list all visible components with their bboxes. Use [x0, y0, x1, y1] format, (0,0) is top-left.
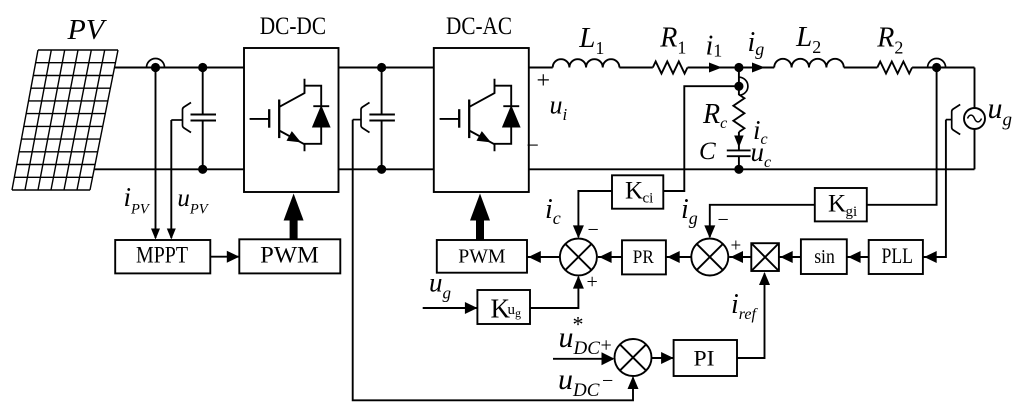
block PLL: [869, 240, 923, 274]
block PWM1: [239, 239, 340, 273]
node junction bottom DC-link capacitor: [377, 165, 386, 174]
svg-text:+: +: [587, 271, 598, 293]
wire u_g into K_ug: [423, 307, 478, 309]
inductor L1: [553, 59, 620, 67]
wire L1 to R1: [619, 67, 652, 69]
summing node 1: [560, 239, 597, 276]
svg-text:DC-AC: DC-AC: [446, 13, 512, 40]
capacitor C: [727, 149, 751, 151]
wire multiplier to summing node 2: [729, 256, 751, 258]
DC-link capacitor: [381, 68, 383, 115]
current sensor i_PV: [147, 59, 165, 68]
svg-text:PWM: PWM: [260, 243, 319, 268]
resistor R1: [653, 62, 688, 74]
wire top bus DC-DC to DC-AC: [339, 67, 434, 69]
current sensor grid i_g: [928, 59, 946, 68]
node junction bottom capacitor C_pv: [198, 165, 207, 174]
summing node 3: [615, 339, 652, 376]
wire sensor i_c to K_ci input: [663, 86, 739, 191]
wire bottom bus DC-AC to grid: [529, 168, 975, 170]
svg-text:C: C: [699, 138, 716, 165]
svg-text:−: −: [718, 209, 729, 231]
wire sin to multiplier: [779, 256, 801, 258]
wire summing node 1 output to PWM2: [527, 256, 560, 258]
gain block K_ci: [612, 175, 663, 208]
svg-text:PLL: PLL: [882, 243, 914, 268]
wire summing node 2 output to PR: [666, 256, 691, 258]
thick gating arrow PWM1 to DC-DC: [290, 220, 298, 240]
svg-text:K: K: [828, 191, 846, 218]
PV panel: [12, 50, 118, 190]
wire grid current sensor down to K_gi input: [867, 68, 937, 205]
summing node 2: [691, 239, 728, 276]
node junction top capacitor C_pv: [198, 63, 207, 72]
converter DC-AC box: [434, 48, 529, 192]
wire u_DC feedback down and right to summing node 3: [353, 120, 633, 401]
svg-text:K: K: [625, 177, 643, 204]
IGBT Q2 with freewheel diode: [440, 79, 520, 151]
wire summing node 3 output to PI: [652, 357, 674, 359]
svg-text:−: −: [527, 133, 539, 158]
svg-text:+: +: [537, 68, 551, 94]
block MPPT: [115, 240, 210, 273]
thick gating arrow PWM2 to DC-AC: [476, 220, 484, 241]
node junction top DC-link capacitor: [377, 63, 386, 72]
svg-text:−: −: [588, 219, 599, 241]
svg-text:sin: sin: [814, 246, 835, 268]
wire R1 to node, current arrow i_1: [688, 67, 739, 69]
svg-text:gi: gi: [846, 204, 858, 220]
voltage probe u_DC measurement: [361, 103, 370, 133]
wire K_gi output down into summing node 2: [710, 205, 815, 237]
wire PI output up into multiplier: [737, 274, 765, 359]
block PI: [674, 340, 737, 376]
converter DC-DC box: [244, 48, 339, 192]
wire grid source down to bottom bus: [974, 129, 976, 169]
inductor L2: [774, 59, 844, 68]
resistor R2: [877, 62, 912, 74]
svg-text:PWM: PWM: [458, 246, 506, 268]
branch: wire node down through Rc: [738, 68, 740, 96]
svg-text:MPPT: MPPT: [136, 243, 188, 268]
wire bottom bus PV to DC-DC: [94, 168, 244, 170]
wire MPPT to PWM1: [210, 256, 239, 258]
gain block K_gi: [815, 188, 867, 221]
wire node to L2, current arrow i_g: [739, 67, 774, 69]
wire PR output to summing node 1: [598, 256, 622, 258]
block PWM2: [437, 240, 527, 273]
node junction bottom filter branch: [734, 165, 743, 174]
multiplier block: [751, 243, 779, 271]
gain block K_ug: [477, 290, 530, 324]
wire u_PV down to MPPT: [170, 120, 172, 238]
wire K_ug output up into summing node 1: [530, 277, 578, 308]
wire L2 to R2: [844, 67, 878, 69]
wire Rc to capacitor C with arrow i_c: [738, 132, 740, 150]
wire top bus DC-AC to L1: [529, 67, 553, 69]
block sin: [801, 239, 847, 274]
svg-text:PI: PI: [694, 346, 715, 371]
wire probe u_g down into PLL: [923, 120, 946, 257]
voltage probe at grid source: [952, 105, 961, 135]
block PR: [622, 240, 666, 274]
svg-text:ci: ci: [643, 191, 654, 207]
wire corner down to grid source: [974, 68, 976, 109]
svg-text:DC-DC: DC-DC: [260, 13, 326, 40]
svg-text:*: *: [573, 312, 584, 337]
svg-text:−: −: [602, 370, 613, 392]
resistor Rc: [733, 95, 744, 133]
capacitor C_pv: [202, 68, 204, 115]
wire top bus PV to DC-DC: [115, 67, 245, 69]
svg-text:PV: PV: [66, 15, 107, 46]
voltage probe u_PV: [183, 103, 192, 133]
wire R2 to grid corner: [912, 67, 974, 69]
wire bottom bus DC-DC to DC-AC: [339, 168, 434, 170]
svg-text:PR: PR: [633, 248, 655, 268]
node junction filter branch: [734, 63, 743, 72]
AC grid source: [964, 108, 985, 129]
current sensor i_c: [739, 77, 748, 95]
wire K_ci output down into summing node 1: [578, 191, 612, 237]
IGBT Q1 with freewheel diode: [250, 79, 330, 151]
wire u_DC* into summing node 3: [553, 358, 613, 360]
wire PLL to sin: [847, 256, 869, 258]
wire i_PV down to MPPT: [155, 68, 157, 239]
